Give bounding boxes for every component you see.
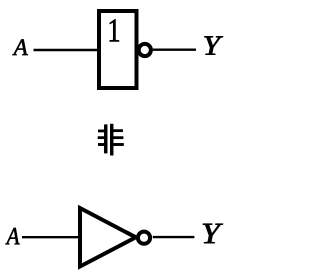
node A (input label, bottom gate) [5,228,19,244]
node A (input label, top gate) [12,39,27,55]
wire U2 bubble to Y [153,236,195,238]
inverter U2 (triangle body) [80,208,136,267]
inverter U1 (IEC "1" rectangle body) [99,11,137,88]
node Y (output label, top gate) [204,36,223,54]
value label 1 [110,19,119,41]
wire A to inverter U2 input [22,236,80,238]
inversion bubble U2 output [138,232,150,244]
inversion bubble U1 output [139,44,151,56]
character 非 (NOT) drawn as strokes [98,124,124,156]
wire U1 bubble to Y [153,49,196,51]
wire A to inverter U1 input [34,49,99,51]
node Y (output label, bottom gate) [203,224,223,243]
